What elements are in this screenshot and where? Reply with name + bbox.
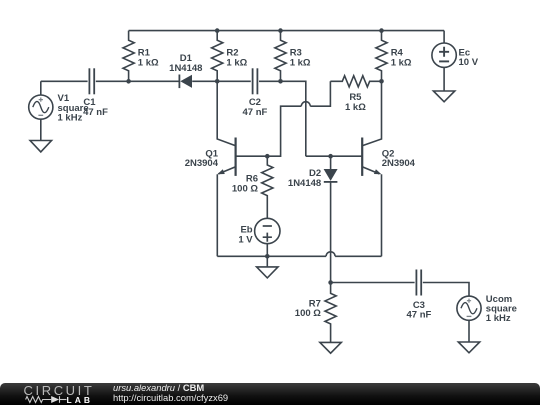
wire main row C2 to corner, down to Q2 base net (259, 81, 306, 156)
svg-text:1 kΩ: 1 kΩ (391, 57, 412, 68)
ground for Ucom (458, 342, 479, 353)
resistor R5 (330, 76, 381, 87)
transistor Q2 (362, 81, 381, 256)
wire Q1 base segment to corner up (236, 106, 302, 156)
wire hop over vertical (Q1 base to R5) (301, 102, 310, 106)
svg-text:100 Ω: 100 Ω (295, 308, 321, 319)
source Eb (255, 218, 280, 256)
node dot Eb bottom on rail (265, 254, 270, 259)
resistor R3 (275, 31, 286, 82)
node dot R3 top (278, 28, 283, 33)
wire R7 row: junction to C3 (331, 282, 415, 284)
wire Eb bottom stub to ground (266, 256, 268, 267)
svg-text:47 nF: 47 nF (83, 107, 108, 118)
resistor R1 (123, 31, 134, 82)
source V1 (29, 81, 53, 140)
node dot D2 top on Q2 base (328, 154, 333, 159)
footer bar (0, 383, 540, 405)
source Ucom (457, 296, 481, 342)
resistor R7 (325, 283, 336, 343)
svg-text:47 nF: 47 nF (242, 107, 267, 118)
wire Q2 base segment (306, 155, 362, 157)
node dot R2 bottom / Q1 collector (215, 79, 220, 84)
source Ec (432, 31, 456, 91)
transistor Q1 (217, 81, 235, 256)
svg-text:1 V: 1 V (238, 235, 253, 246)
capacitor C3 (416, 270, 421, 296)
diode D1 (179, 75, 192, 89)
wire main row C1 to D1 (96, 80, 179, 82)
svg-text:47 nF: 47 nF (406, 310, 431, 321)
wire emitter rail left of hop (217, 255, 326, 257)
resistor R6 (262, 156, 273, 218)
footer info text (113, 383, 228, 403)
node dot R7 top / C3 row (328, 280, 333, 285)
node dot R1 bottom (126, 79, 131, 84)
svg-text:100 Ω: 100 Ω (232, 184, 258, 195)
node dot R4 top (379, 28, 384, 33)
resistor R4 (376, 31, 387, 82)
CircuitLab logo text LAB (67, 396, 93, 405)
wire main row D1 to C2 (192, 80, 251, 82)
ground for V1 (30, 141, 51, 152)
ground for Eb (257, 267, 278, 278)
node dot R3 bottom (278, 79, 283, 84)
svg-text:1 kΩ: 1 kΩ (226, 57, 247, 68)
svg-text:10 V: 10 V (459, 57, 479, 68)
CircuitLab logo text CIRCUIT (24, 384, 95, 397)
wire hop over D2 column on rail (326, 252, 335, 256)
svg-text:1N4148: 1N4148 (288, 178, 321, 189)
CircuitLab logo doodle (resistor + diode) (24, 395, 70, 405)
diode D2 (324, 156, 338, 282)
node dot R4 bottom / R5 right (379, 79, 384, 84)
wire top rail (129, 30, 445, 32)
svg-text:2N3904: 2N3904 (185, 158, 219, 169)
capacitor C2 (253, 68, 258, 94)
svg-text:1 kΩ: 1 kΩ (345, 102, 366, 113)
svg-text:1 kHz: 1 kHz (58, 112, 83, 123)
resistor R2 (212, 31, 223, 82)
svg-text:2N3904: 2N3904 (382, 158, 416, 169)
svg-text:1 kΩ: 1 kΩ (138, 57, 159, 68)
node dot R6 top on Q1 base (265, 154, 270, 159)
svg-text:1 kΩ: 1 kΩ (290, 57, 311, 68)
ground for Ec (433, 91, 454, 102)
ground for R7 (320, 342, 341, 353)
wire C3 to Ucom corner (423, 283, 469, 297)
capacitor C1 (89, 68, 94, 94)
wire hop exit to R5 left lead (310, 81, 330, 106)
wire main row V1 to C1 (41, 80, 88, 82)
svg-text:1 kHz: 1 kHz (486, 313, 511, 324)
svg-text:1N4148: 1N4148 (169, 63, 202, 74)
node dot R2 top (215, 28, 220, 33)
wire emitter rail right of hop (335, 255, 381, 257)
